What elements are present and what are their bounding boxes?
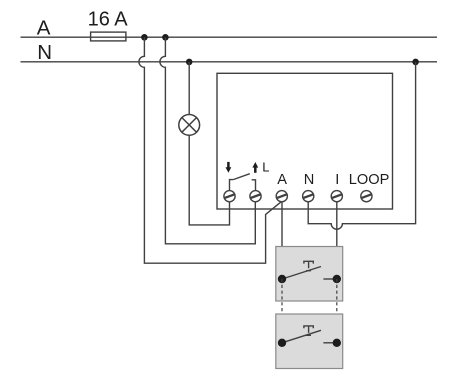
junction dot on N (lamp) bbox=[186, 59, 193, 66]
wire terminal N to line N (hop over I wire) bbox=[308, 62, 415, 229]
pushbutton S2 blade bbox=[282, 330, 321, 343]
wire terminal A to pushbutton S1 bbox=[281, 202, 283, 279]
svg-text:16 A: 16 A bbox=[88, 9, 129, 31]
pushbutton S2 actuator bbox=[304, 326, 313, 335]
mechanical link dashed right bbox=[336, 279, 338, 368]
svg-text:A: A bbox=[277, 172, 287, 188]
pushbutton S1 blade bbox=[282, 267, 321, 280]
terminal T3 (A) bbox=[276, 191, 287, 202]
wire line N bbox=[21, 61, 438, 63]
svg-text:L: L bbox=[262, 160, 269, 175]
svg-text:LOOP: LOOP bbox=[349, 172, 390, 188]
lamp E1 bbox=[179, 115, 200, 136]
junction dot on A (right) bbox=[162, 34, 169, 41]
terminal T6 (LOOP) bbox=[361, 191, 372, 202]
terminal T5 (I) bbox=[331, 191, 342, 202]
wire N to lamp bbox=[188, 62, 190, 115]
pushbutton S2 right dot bbox=[333, 339, 341, 347]
wire lamp to terminal DOWN bbox=[189, 135, 229, 225]
wire A to terminal A (with hop over N) bbox=[139, 37, 281, 263]
pushbutton S2 left dot bbox=[278, 339, 286, 347]
pushbutton S2 fixed contact bbox=[323, 342, 336, 344]
terminal T1 (down) bbox=[224, 191, 235, 202]
wire terminal I to pushbutton S1 bbox=[336, 202, 338, 279]
internal switch post T1 bbox=[230, 180, 234, 191]
junction dot on A (left) bbox=[141, 34, 148, 41]
wire A to terminal L (with hop over N) bbox=[160, 37, 255, 244]
internal switch blade bbox=[233, 174, 250, 180]
svg-text:A: A bbox=[37, 16, 51, 39]
label arrow down bbox=[227, 162, 230, 168]
svg-text:N: N bbox=[304, 172, 315, 188]
svg-text:I: I bbox=[335, 172, 339, 188]
pushbutton S1 actuator bbox=[304, 261, 313, 270]
terminal T2 (L) bbox=[250, 191, 261, 202]
mechanical link dashed left bbox=[281, 279, 283, 368]
pushbutton S1 right dot bbox=[333, 275, 341, 283]
label arrow up + L bbox=[254, 167, 257, 173]
pushbutton S1 left dot bbox=[278, 275, 286, 283]
device box U1 bbox=[217, 73, 393, 209]
svg-text:N: N bbox=[37, 41, 52, 64]
wire line A bbox=[21, 36, 438, 38]
junction dot on N (right) bbox=[412, 59, 419, 66]
pushbutton S1 fixed contact bbox=[323, 278, 336, 280]
internal switch post T2 bbox=[252, 180, 256, 191]
terminal T4 (N) bbox=[303, 191, 314, 202]
pushbutton S2 box bbox=[276, 314, 343, 369]
pushbutton S1 box bbox=[276, 247, 343, 302]
fuse F1 bbox=[91, 32, 126, 41]
